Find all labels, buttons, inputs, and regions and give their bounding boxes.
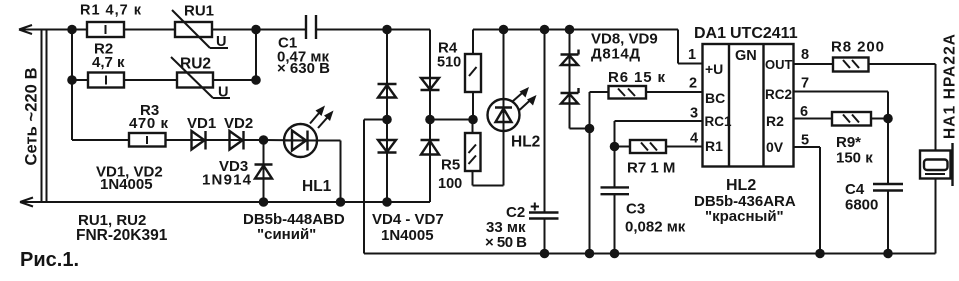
wire HL1 right lead — [317, 141, 341, 203]
diode VD3 — [255, 140, 273, 202]
wire R3 row — [72, 139, 129, 141]
svg-text:VD2: VD2 — [224, 115, 253, 132]
node junction bridge mid-left — [382, 115, 392, 125]
label R8 200 — [831, 39, 884, 56]
node junction VD2 out — [259, 135, 269, 145]
wire pin7 — [794, 92, 889, 119]
wire zener node to rail — [589, 129, 591, 254]
zener VD8 — [561, 30, 579, 129]
svg-text:HA1 НРА22А: HA1 НРА22А — [942, 34, 959, 139]
resistor R9 — [832, 112, 888, 126]
node junction C4 bottom — [883, 249, 893, 259]
svg-text:6800: 6800 — [845, 197, 878, 214]
label VD2 — [224, 115, 253, 132]
label 150 к — [836, 150, 873, 167]
svg-text:4,7 к: 4,7 к — [92, 54, 125, 71]
HL2 arrows — [513, 87, 537, 110]
label FNR-20K391 — [76, 227, 168, 244]
wire C1 to bridge — [316, 29, 430, 31]
resistor R8 — [833, 58, 869, 72]
label 1N4005 — [100, 176, 153, 193]
svg-text:× 50 В: × 50 В — [485, 234, 527, 251]
svg-text:R2: R2 — [766, 113, 784, 129]
svg-text:1N4005: 1N4005 — [381, 227, 434, 244]
wire pin8 — [794, 63, 834, 65]
pin number 6 — [800, 104, 808, 120]
label × 630 В — [277, 60, 330, 77]
C2 plus sign — [531, 203, 539, 211]
node junction bridge mid-right — [425, 115, 435, 125]
svg-text:BC: BC — [705, 90, 725, 106]
label 33 мк — [486, 219, 526, 236]
label RC2 — [765, 87, 792, 102]
label 510 — [437, 55, 461, 71]
capacitor C1 — [306, 15, 316, 39]
label R7 1 М — [627, 160, 675, 177]
svg-text:8: 8 — [801, 47, 809, 63]
buzzer HA1 — [920, 143, 953, 254]
svg-text:U: U — [216, 34, 226, 50]
resistor R5 — [465, 120, 504, 186]
node junction zener bottom — [585, 124, 595, 134]
node junction C3 bottom — [610, 249, 620, 259]
label U of RU2 — [218, 85, 228, 101]
label 1N4005 bridge — [381, 227, 434, 244]
wire pin5 — [794, 147, 821, 254]
svg-text:Сеть ~220 В: Сеть ~220 В — [23, 67, 41, 165]
wire R2 to RU2 — [124, 79, 177, 81]
label R2 — [94, 41, 113, 58]
label 470 к — [129, 115, 168, 132]
node junction pin5 rail — [815, 249, 825, 259]
wire pin3 — [615, 121, 703, 147]
label HL1 — [302, 178, 332, 195]
label Сеть ~220 В — [23, 67, 41, 165]
svg-text:VD4 - VD7: VD4 - VD7 — [372, 211, 444, 228]
label C1 — [278, 35, 297, 52]
svg-text:UTC2411: UTC2411 — [730, 25, 798, 42]
svg-text:Рис.1.: Рис.1. — [20, 249, 79, 271]
label RU1, RU2 — [78, 212, 146, 229]
label VD3 — [219, 158, 248, 175]
label BC — [705, 90, 725, 106]
node junction HL1 bottom — [336, 197, 346, 207]
svg-text:R1 4,7 к: R1 4,7 к — [80, 3, 142, 19]
label красный — [705, 208, 784, 225]
label RC1 — [705, 114, 732, 129]
node junction R4 R5 — [468, 115, 478, 125]
pin number 5 — [801, 133, 809, 149]
capacitor C3 — [601, 147, 630, 254]
diode VD4 upper-left — [378, 84, 397, 98]
label 0,082 мк — [625, 219, 686, 236]
svg-text:3: 3 — [690, 106, 698, 122]
zener VD9 — [561, 88, 590, 129]
diode VD7 lower-right — [421, 140, 440, 155]
svg-text:HL2: HL2 — [726, 177, 756, 194]
svg-text:R8 200: R8 200 — [831, 39, 884, 56]
capacitor C4 — [873, 119, 903, 254]
node junction C2 bottom — [540, 249, 550, 259]
label 4,7 к — [92, 54, 125, 71]
pin number 8 — [801, 47, 809, 63]
svg-text:R6 15 к: R6 15 к — [608, 69, 665, 86]
label R4 — [438, 40, 458, 57]
svg-text:RU2: RU2 — [180, 56, 211, 73]
label R2 pin — [766, 113, 784, 129]
svg-text:2: 2 — [689, 76, 697, 92]
resistor R4 — [465, 30, 481, 120]
node junction R2 row — [67, 75, 77, 85]
wire mains top line with arrow — [19, 25, 87, 34]
label HL2 red — [726, 177, 756, 194]
svg-text:HL1: HL1 — [302, 178, 332, 195]
label GN — [735, 48, 757, 64]
LED HL2 — [488, 30, 520, 186]
label VD1, VD2 — [96, 164, 163, 181]
svg-text:GN: GN — [735, 48, 757, 64]
LED HL1 — [264, 124, 318, 157]
wire R1 to RU1 — [124, 29, 175, 31]
wire R2 from branch — [72, 79, 88, 81]
svg-text:R1: R1 — [705, 138, 723, 154]
diode VD1 — [192, 131, 206, 150]
label R6 15 к — [608, 69, 665, 86]
svg-text:0,082 мк: 0,082 мк — [625, 219, 686, 236]
pin number 4 — [690, 131, 698, 147]
resistor R2 — [88, 73, 124, 88]
node junction HL2 top — [499, 25, 509, 35]
wire mains bottom line with arrow — [20, 198, 430, 207]
wire R8 to HA1 — [869, 64, 936, 151]
node junction R9 right — [883, 114, 893, 124]
wire RU2 row to corner up — [213, 30, 256, 81]
wire mid-right to R4 R5 node — [430, 119, 473, 121]
label 100 — [438, 176, 462, 192]
label HA1 HPA22A — [942, 34, 959, 139]
svg-text:DA1: DA1 — [694, 25, 726, 42]
node junction RU2 corner — [251, 75, 261, 85]
pin number 2 — [689, 76, 697, 92]
label 0,47 мк — [277, 49, 329, 66]
svg-text:470 к: 470 к — [129, 115, 168, 132]
pin number 1 — [688, 47, 696, 63]
pin number 3 — [690, 106, 698, 122]
label RU1 — [184, 3, 214, 20]
varistor RU2 — [171, 57, 230, 98]
resistor R1 — [87, 22, 124, 37]
svg-text:1: 1 — [688, 47, 696, 63]
node junction R7 left — [610, 142, 620, 152]
label OUT — [765, 57, 793, 72]
svg-text:U: U — [218, 85, 228, 101]
label C2 — [506, 204, 525, 221]
label UTC2411 — [730, 25, 798, 42]
diode VD6 lower-left — [378, 140, 397, 153]
svg-text:R5: R5 — [441, 157, 460, 174]
wire bridge right column — [429, 30, 431, 203]
wire left vertical branch — [71, 30, 73, 141]
label VD4 - VD7 — [372, 211, 444, 228]
svg-text:HL2: HL2 — [511, 134, 540, 151]
svg-text:RU1: RU1 — [184, 3, 214, 20]
wire R3 to VD1 VD2 — [166, 139, 264, 141]
svg-text:+U: +U — [705, 61, 723, 77]
label R9* — [836, 134, 861, 151]
svg-text:"красный": "красный" — [705, 208, 784, 225]
svg-text:1N914: 1N914 — [202, 172, 252, 189]
diode VD5 upper-right — [421, 78, 440, 90]
varistor RU1 — [172, 10, 228, 48]
label синий — [257, 226, 316, 243]
label C4 — [845, 181, 865, 198]
label C3 — [626, 201, 645, 218]
label VD8, VD9 — [591, 31, 658, 48]
capacitor C2 — [529, 30, 559, 254]
pin number 7 — [801, 76, 809, 92]
wire positive top rail — [473, 29, 678, 31]
label +U — [705, 61, 723, 77]
label HL2 — [511, 134, 540, 151]
svg-text:RC2: RC2 — [765, 87, 792, 102]
svg-text:OUT: OUT — [765, 57, 793, 72]
label R5 — [441, 157, 460, 174]
label R3 — [140, 102, 159, 119]
node junction VD3 bottom — [259, 197, 269, 207]
label Д814Д — [591, 46, 640, 63]
wire negative rail from mid-left — [364, 120, 936, 254]
wire pin6 — [794, 118, 833, 120]
label VD1 — [187, 115, 216, 132]
resistor R6 — [590, 86, 703, 129]
svg-text:0V: 0V — [766, 139, 784, 155]
wire RU1 to C1 node — [212, 29, 306, 31]
label R1 4,7 к — [80, 3, 142, 19]
node junction bridge left top — [382, 25, 392, 35]
label U of RU1 — [216, 34, 226, 50]
label × 50 В — [485, 234, 527, 251]
svg-text:100: 100 — [438, 176, 462, 192]
diode VD2 — [230, 131, 244, 150]
resistor R7 — [615, 140, 703, 153]
resistor R3 — [129, 133, 166, 147]
node junction zener top — [565, 25, 575, 35]
svg-text:VD1: VD1 — [187, 115, 216, 132]
node junction top-left — [67, 25, 77, 35]
node junction bridge left bottom — [382, 197, 392, 207]
svg-text:4: 4 — [690, 131, 698, 147]
svg-text:7: 7 — [801, 76, 809, 92]
node junction C2 top — [540, 25, 550, 35]
label DB5b-448ABD — [243, 211, 345, 228]
node junction at C1 left — [251, 25, 261, 35]
label 6800 — [845, 197, 878, 214]
label DB5b-436ARA — [694, 193, 796, 210]
HL1 arrows — [310, 106, 334, 129]
label Рис.1. — [20, 249, 79, 271]
label R1 pin — [705, 138, 723, 154]
mains cable double line — [42, 30, 47, 203]
label 1N914 — [202, 172, 252, 189]
svg-text:"синий": "синий" — [257, 226, 316, 243]
svg-text:150 к: 150 к — [836, 150, 873, 167]
svg-text:FNR-20K391: FNR-20K391 — [76, 227, 168, 244]
op-amp U1 IC DA1 UTC2411 body — [703, 44, 794, 167]
svg-text:510: 510 — [437, 55, 461, 71]
svg-text:C4: C4 — [845, 181, 865, 198]
svg-text:R7 1 М: R7 1 М — [627, 160, 675, 177]
svg-text:C3: C3 — [626, 201, 645, 218]
svg-text:1N4005: 1N4005 — [100, 176, 153, 193]
label DA1 — [694, 25, 726, 42]
wire bridge left column — [386, 30, 388, 203]
svg-text:Д814Д: Д814Д — [591, 46, 640, 63]
svg-text:RC1: RC1 — [705, 114, 732, 129]
node junction rail at 589 — [585, 249, 595, 259]
svg-text:× 630 В: × 630 В — [277, 60, 330, 77]
wire pin1 — [678, 30, 703, 64]
label 0V — [766, 139, 784, 155]
label RU2 — [180, 56, 211, 73]
svg-text:R9*: R9* — [836, 134, 861, 151]
